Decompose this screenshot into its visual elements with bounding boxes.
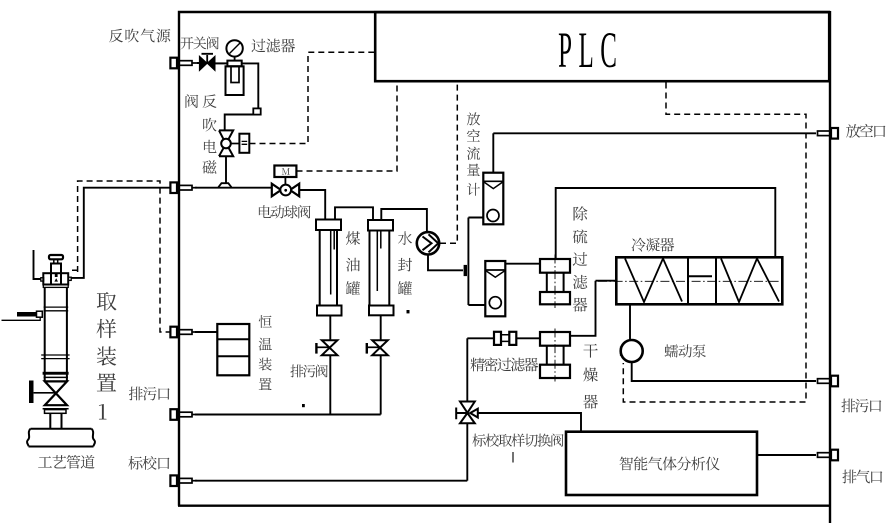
wires: tanks to drain valves (330, 315, 380, 340)
condenser body (616, 257, 782, 304)
label: switch valve (181, 37, 219, 50)
PLC text (558, 21, 617, 78)
wire: condenser to pump (629, 304, 631, 340)
switch valve (bowtie) (200, 57, 215, 70)
calibration/sample switching valve (3-way) (460, 402, 478, 424)
label: sampling device 1 (vertical) (96, 292, 116, 391)
condenser middle tick (689, 275, 712, 277)
wire: meter to vent line (492, 133, 494, 172)
wire: meter2 to desulf filter (505, 263, 540, 265)
sampler stack stub line (34, 250, 42, 279)
stray dot (302, 404, 305, 407)
union coupling (467, 337, 494, 339)
label: water seal tank (398, 231, 412, 295)
sampler T-handle (49, 255, 63, 259)
port: vent outlet (818, 131, 832, 136)
wire: junction riser (468, 218, 485, 306)
label: vent flow meter (vertical) (467, 112, 480, 196)
port: to sampling device (170, 182, 177, 193)
kerosene tank (top cap) (316, 220, 341, 231)
wire: inlet to switch valve (197, 62, 200, 64)
precision filter (554, 329, 556, 382)
port: calibration inlet (170, 475, 177, 486)
wire: water tank outlet to sample ball valve (381, 209, 427, 233)
drain manifold (195, 355, 381, 415)
outer cabinet frame (178, 11, 831, 523)
label: intelligent gas analyzer (620, 456, 720, 470)
label: backflush gas source (109, 29, 170, 43)
control dashes: PLC to sample valve (440, 83, 457, 244)
label: valve (186, 94, 199, 108)
wire: port to thermostat (195, 331, 217, 333)
backflush filter (227, 61, 241, 67)
head flange (43, 285, 68, 288)
calibration line from left port (195, 480, 467, 482)
main sample line inside frame (195, 187, 272, 189)
drain valve 2 (372, 340, 388, 355)
wire: solenoid down to main line (225, 156, 227, 184)
label: backflush solenoid (vertical) (202, 94, 216, 174)
drain valve 1 (322, 340, 338, 355)
label: drain port (left) (129, 387, 170, 401)
electric ball valve (284, 177, 286, 184)
label: kerosene tank (346, 231, 360, 295)
port: thermostat feed (170, 327, 177, 338)
pressure gauge (226, 40, 242, 56)
label: peristaltic pump (665, 344, 706, 357)
sample flow meter (lower) (485, 261, 505, 316)
wire: precision filter to condenser (570, 281, 616, 336)
saddle junction (218, 183, 231, 187)
water-seal tank body (370, 231, 390, 306)
wire: coupling corner down to 3-way valve (466, 338, 468, 401)
svg-text:C: C (600, 21, 617, 78)
wire: valve to filter (215, 62, 227, 64)
port: exhaust outlet (818, 453, 832, 458)
water-seal tank (top cap) (368, 220, 393, 231)
label: calibration port (left) (128, 456, 169, 470)
condenser coil zigzag right (721, 259, 779, 303)
wire: port2 out to sampler head (71, 188, 170, 278)
lower stub (50, 413, 61, 429)
wire: valve to kerosene tank (299, 190, 325, 220)
wire: filter to solenoid (242, 63, 259, 108)
wire: filter top over to condenser (556, 188, 776, 259)
condenser centerline (598, 280, 782, 282)
wire: valve to meter junction (428, 255, 463, 271)
label: thermostat (vertical) (259, 315, 272, 390)
label: precision filter (470, 357, 538, 371)
sampler isolation valve (hourglass) (45, 381, 67, 405)
port: drain outlet right (818, 379, 832, 384)
sampler neck (51, 264, 61, 285)
label: drain port (right) (841, 399, 881, 413)
label: process pipe (38, 455, 94, 469)
stray dot (407, 310, 410, 313)
probe arm (17, 312, 37, 317)
port: drain outlet left (170, 409, 177, 420)
label: calibration sampling switch valve (472, 434, 563, 447)
intelligent gas analyzer box (566, 432, 757, 495)
control dashes: thermostat to sampler (72, 181, 171, 332)
vent flow meter (upper) (483, 173, 503, 225)
control dashes: PLC to motor valve (297, 83, 398, 172)
control dashes: PLC to pump (623, 83, 806, 403)
solenoid coil box (231, 143, 240, 145)
kerosene tank body (320, 230, 337, 306)
port: backflush gas inlet (170, 58, 177, 69)
motor box M (274, 166, 296, 178)
tube bands (41, 307, 69, 359)
backflush solenoid valve (219, 130, 233, 156)
wire: valve down to calibration line (466, 423, 468, 480)
label: vent port (846, 124, 885, 138)
label: desulfurizing filter (vertical) (573, 206, 588, 311)
wire (225, 115, 254, 131)
junction flange bar (464, 265, 467, 276)
sampler body tube (45, 287, 67, 381)
process pipe (27, 429, 95, 447)
thermostat box (217, 324, 249, 375)
wire: pump to right drain port (632, 362, 816, 381)
label: exhaust port (842, 470, 882, 484)
label: filter (251, 39, 295, 53)
head ports (41, 278, 44, 281)
motor ball valve (circle symbol) (417, 232, 439, 254)
condenser coil zigzag left (625, 259, 682, 303)
vent line to port (493, 132, 816, 134)
svg-text:P: P (558, 21, 572, 78)
svg-text:L: L (578, 21, 593, 78)
sampler head block (43, 273, 68, 284)
label: drain valve (290, 365, 327, 378)
lower flanges (43, 408, 69, 410)
wire: analyzer to exhaust port (757, 454, 816, 456)
label: electric ball valve (259, 205, 311, 218)
wire: valve to analyzer (478, 413, 581, 432)
label: condenser (632, 238, 675, 252)
control dashes: PLC to solenoid (250, 52, 375, 143)
peristaltic pump (621, 340, 643, 362)
tank bridge pipe (335, 207, 373, 220)
label: dryer (vertical) (583, 344, 598, 409)
PLC controller box (375, 12, 829, 81)
corner hook fitting (253, 108, 260, 114)
desulfurizing filter (554, 255, 556, 309)
